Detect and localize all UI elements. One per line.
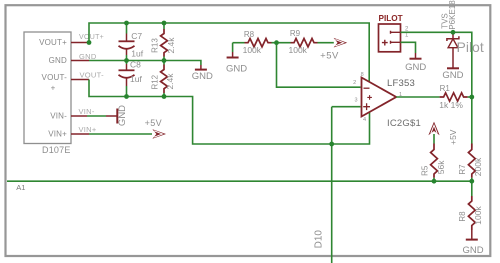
svg-text:PILOT: PILOT [379, 14, 403, 23]
supply +5V arrow (right) after R9 [334, 38, 348, 48]
diode TVS P6KE18 [440, 0, 459, 68]
wire C7 leads [126, 23, 128, 34]
wire VIN- to ground [87, 115, 106, 117]
pin stub VIN- [71, 115, 87, 117]
wire op-amp output to R1 [396, 96, 439, 98]
svg-text:1uf: 1uf [131, 49, 143, 59]
junction VOUT+ [87, 40, 92, 45]
svg-text:4: 4 [363, 117, 366, 123]
pin stub GND [71, 60, 89, 62]
svg-text:A1: A1 [16, 183, 25, 192]
svg-text:R9: R9 [290, 29, 301, 38]
junction D10 pin4 [329, 142, 334, 147]
svg-text:R5: R5 [421, 165, 430, 176]
svg-text:+: + [51, 84, 56, 93]
svg-text:Pilot: Pilot [457, 39, 484, 55]
svg-text:+5V: +5V [320, 51, 339, 62]
junction TVS top [451, 30, 456, 35]
svg-text:R12: R12 [150, 74, 159, 89]
wire GND rail [89, 61, 201, 66]
wire GND drop left of R8 [232, 43, 234, 52]
wire R1 to pilot vertical [468, 96, 472, 98]
wire R7 bottom [471, 178, 473, 182]
svg-text:1k 1%: 1k 1% [439, 100, 463, 110]
ground R8 bottom [471, 230, 473, 239]
svg-text:GND: GND [49, 56, 67, 65]
svg-text:56k: 56k [436, 160, 446, 174]
wire R5 bottom [433, 178, 435, 182]
connector PILOT [379, 14, 410, 52]
resistor R12 [150, 65, 175, 94]
junction R1 out [469, 95, 474, 100]
wire R13 leads [163, 23, 165, 29]
svg-text:3: 3 [354, 97, 357, 103]
IC U$1 D107E box [24, 32, 71, 144]
junction R12 top [162, 58, 167, 63]
svg-text:R7: R7 [458, 164, 467, 175]
svg-text:P6KE18: P6KE18 [448, 0, 457, 30]
junction R7 bottom [469, 179, 474, 184]
svg-text:+5V: +5V [145, 118, 162, 128]
resistor R1 [439, 84, 467, 110]
junction R13 top [162, 21, 167, 26]
wire +5V to R5 [433, 134, 435, 144]
svg-text:VIN-: VIN- [50, 111, 67, 120]
supply +5V arrow (right) at VIN+ [152, 129, 166, 139]
svg-text:2.4k: 2.4k [166, 37, 176, 54]
wire VOUT+ net: pin up to top rail, rail to op-amp pin 8 [89, 23, 369, 82]
wire R8 top [471, 181, 473, 196]
svg-text:R8: R8 [458, 211, 467, 222]
svg-text:R1: R1 [440, 84, 451, 93]
svg-text:200k: 200k [473, 157, 483, 176]
svg-text:GND: GND [192, 71, 213, 82]
ground divider left [232, 52, 234, 57]
svg-text:2: 2 [405, 26, 409, 32]
svg-text:IC2G$1: IC2G$1 [387, 118, 421, 129]
svg-text:VOUT-: VOUT- [42, 73, 68, 82]
wire D10 vertical to bottom edge [331, 107, 333, 263]
svg-text:+5V: +5V [448, 129, 458, 145]
svg-text:VOUT-: VOUT- [80, 71, 105, 80]
svg-text:100k: 100k [289, 45, 308, 55]
svg-text:VIN-: VIN- [79, 107, 95, 116]
wire C8 leads [126, 61, 128, 65]
wire VIN+ to +5V [89, 133, 152, 135]
junction R5 bottom [432, 179, 437, 184]
resistor R13 [150, 29, 176, 57]
op-amp IC2G$1 LF353 [353, 72, 421, 129]
wire VOUT- / D10 net: pin down, rail, down, across to op-amp pin 4 riser [89, 80, 370, 145]
capacitor C8 [119, 59, 143, 86]
capacitor C7 [119, 31, 144, 59]
svg-text:VOUT+: VOUT+ [39, 38, 67, 47]
junction divider node [274, 40, 279, 45]
svg-text:100k: 100k [243, 45, 262, 55]
junction R12 bottom [162, 94, 167, 99]
resistor R7 [458, 144, 483, 178]
wire op-amp pin 3 [332, 106, 361, 108]
ground PILOT pin1 [415, 53, 417, 58]
svg-text:1: 1 [405, 33, 409, 39]
svg-text:GND: GND [226, 63, 247, 74]
resistor R9 [289, 29, 318, 55]
svg-text:GND: GND [442, 70, 463, 81]
resistor R8 (divider) [243, 30, 272, 55]
svg-text:LF353: LF353 [387, 78, 415, 89]
svg-text:2: 2 [353, 80, 356, 86]
svg-text:C8: C8 [130, 59, 141, 69]
wire op-amp pin 2 from divider [277, 43, 361, 87]
wire PILOT pin2 to pilot net [401, 32, 472, 147]
svg-text:GND: GND [79, 52, 97, 61]
junction C8 top [124, 58, 129, 63]
svg-text:100k: 100k [473, 206, 483, 225]
svg-text:C7: C7 [131, 31, 142, 41]
wire divider rail segments [233, 42, 245, 44]
svg-text:GND: GND [405, 62, 426, 73]
svg-text:GND: GND [462, 245, 483, 256]
resistor R8 (bottom) [458, 196, 483, 230]
junction C8 bottom [124, 94, 129, 99]
resistor R5 [421, 144, 447, 178]
svg-text:2.4k: 2.4k [165, 73, 175, 90]
wire A1 net horizontal [7, 180, 472, 182]
svg-text:VIN+: VIN+ [79, 125, 97, 134]
svg-text:1uf: 1uf [130, 74, 142, 84]
svg-text:D10: D10 [314, 230, 325, 249]
junction C7 top [124, 21, 129, 26]
svg-text:R8: R8 [244, 30, 255, 39]
ground under GND rail [200, 65, 202, 69]
svg-text:VOUT+: VOUT+ [79, 34, 104, 41]
svg-text:R13: R13 [150, 38, 159, 53]
pin stub VOUT+ [71, 42, 89, 44]
ground VIN- (rotated) [106, 115, 117, 117]
svg-text:D107E: D107E [42, 145, 71, 155]
svg-text:8: 8 [361, 72, 364, 78]
pin stub VOUT- [71, 79, 89, 81]
supply +5V arrow (up) above R5 [428, 122, 439, 136]
wire PILOT pin1 to ground [401, 42, 416, 53]
wire R12 leads [163, 61, 165, 65]
pin stub VIN+ [71, 133, 89, 135]
ground TVS [447, 67, 459, 69]
svg-text:VIN+: VIN+ [48, 129, 67, 138]
svg-text:GND: GND [117, 105, 128, 126]
